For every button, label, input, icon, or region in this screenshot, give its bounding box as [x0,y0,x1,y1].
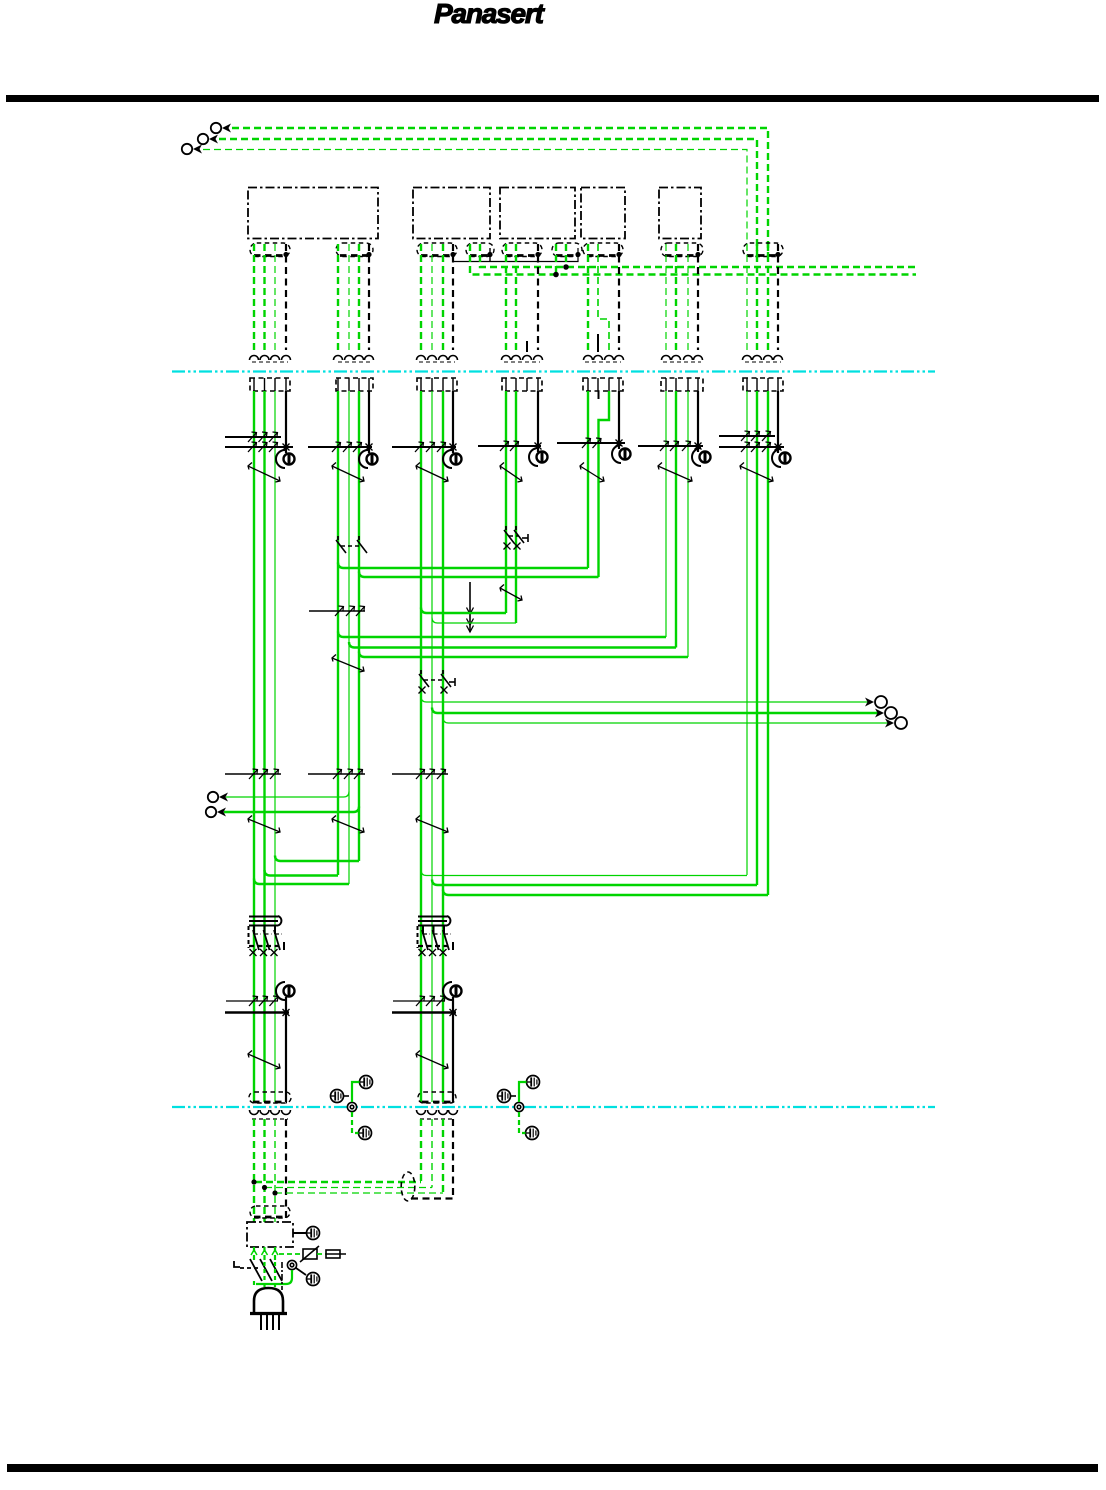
wire out y723 [443,718,891,724]
bond wire lower [519,1112,526,1133]
link y1187 [265,1187,432,1189]
socket S7 [743,378,783,391]
switch row lower [225,996,290,1016]
connector CN2 [336,243,373,257]
stub CN7 socket pin [598,391,600,399]
socket S3 [417,378,457,391]
wire out y797 [226,792,349,798]
ground PE b [498,1090,517,1103]
isolator blade [658,463,692,483]
screen wire lower 1 [285,1012,287,1102]
switch row SB2 [308,769,365,779]
connector CN13 [250,1206,290,1218]
harness W1 lower [254,1119,286,1222]
plug pins lower [250,1110,291,1119]
unit box U2 [413,188,490,239]
isolator blade [332,463,364,483]
plug pins P5 [584,356,624,363]
unit box U4 [581,188,625,239]
bottom rule [7,1464,1098,1472]
line filter FL1 [247,1222,293,1247]
harness W1 [254,244,286,350]
harness W9 run [747,391,768,895]
bond wire main [256,1270,292,1284]
connector CN4 [466,243,494,257]
screen wire lower 2 [452,1012,454,1102]
isolator blade [416,463,448,483]
harness W3 lower [421,1119,453,1199]
interlock SW5 [504,526,529,550]
link y1182 [255,1181,421,1183]
plug leads [254,1262,282,1290]
switch row SB3 [392,769,448,779]
unit box U3 [500,188,575,239]
circuit breaker CB2 [418,916,454,956]
terminal Y2 [875,707,897,719]
merge y885 [432,880,757,886]
harness W7 [588,244,619,350]
bond lead [296,1268,306,1275]
terminal Z2 [206,807,226,817]
switch bus MC7 [557,438,625,448]
merge y884 [254,879,349,885]
switch bus MC1 [225,432,293,452]
plug pins P4 [502,356,543,363]
main switch hook [234,1261,258,1268]
isolator blade [580,463,604,483]
switch row SB1 [225,769,281,779]
junction dot A [563,264,569,270]
screen wire [368,391,370,453]
bond point [514,1102,523,1111]
merge y861 [275,856,359,862]
connector CN11 [418,1092,456,1103]
phantom line 2 (panel boundary) [172,1106,935,1108]
stub CN5 spare pin [526,341,528,352]
connector CN6 [552,243,582,257]
connector CN3 [417,243,457,257]
socket S5 [583,378,623,391]
motor M [612,445,631,463]
plug pins P2 [334,356,374,363]
switch bus MC8 [638,441,703,451]
screen wire [697,391,699,452]
actuator bus (x470) [467,582,474,632]
motor M [359,450,378,468]
isolator blade W2b [332,655,364,673]
screen wire [777,391,779,453]
bond point main [287,1260,296,1269]
harness W5 [506,244,538,350]
terminal Y1 [865,696,887,708]
junction dot C [251,1179,256,1184]
motor M lower [443,982,462,1012]
terminal X1 (top left) [211,123,231,133]
isolator blade row3 [248,1051,280,1070]
wire out y713 [432,708,881,714]
ground PE main [307,1273,320,1286]
ground PE filter [293,1227,320,1240]
unit box U5 [659,188,701,239]
wire link y637 [338,632,666,638]
harness W2 [338,244,369,350]
connector CN12 (vertical) [401,1172,415,1201]
junction dot B [553,272,559,278]
filter leads [254,1247,275,1262]
plug pins P6 [662,356,703,363]
harness W8 run [666,391,688,657]
ground PE c [526,1127,539,1140]
harness W9 [747,244,778,350]
terminal X3 (top left) [182,144,202,154]
harness W8 [666,244,698,350]
svg-text:Panasert: Panasert [434,0,546,29]
connector CN7 [583,243,623,257]
motor M [772,449,791,467]
socket S2 [336,378,373,391]
isolator blade [248,463,280,483]
screen wire [452,391,454,453]
net link (CN3-CN6 black) [453,248,578,262]
bus green L2 (y274) [470,244,916,275]
wire out y702 [421,697,871,703]
motor M [276,450,295,468]
unit box U1 [248,188,378,239]
wire CN7 jog [598,244,609,350]
actuator bus (y611) [309,606,365,616]
harness W3 run [421,391,443,1102]
fuse F1 [326,1250,346,1258]
terminal Y3 [885,717,907,729]
phase arrows [251,1250,278,1255]
main switch blades [250,1259,282,1281]
wire top feed 1 [232,128,768,256]
ground PE a [360,1076,373,1089]
Panasert logo [434,0,546,29]
socket S4 [502,378,542,391]
switch bus MC3 [392,442,457,452]
wire top feed 2 [219,139,757,256]
socket S6 [661,378,703,391]
motor M lower [276,982,295,1012]
wire top feed 3 [203,150,747,257]
screen wire [618,391,620,449]
wire link y657 [359,652,688,658]
wire CN7 run jog [599,391,610,577]
screen wire [285,391,287,453]
wire link y623 [432,618,516,624]
ground PE c [359,1127,372,1140]
harness W7 run [587,391,589,568]
interlock SW3 [419,670,456,694]
plug pins P3 [417,356,458,363]
switch bus MC9 [719,431,784,452]
motor M [443,450,462,468]
motor M [692,448,711,466]
plug pins P7 [743,356,783,363]
phantom line 1 (panel boundary) [172,370,935,372]
harness W5 run [506,391,516,623]
merge y875R [421,870,747,876]
junction dot E [272,1190,277,1195]
merge y895 [443,890,768,896]
wire link y577 [359,572,599,578]
plug pins P1 [250,356,291,363]
motor M [529,448,548,466]
top rule [6,95,1099,102]
mains plug PL1 [250,1288,287,1330]
harness W2 run [338,391,359,884]
screen wire [537,391,539,452]
ground PE b [331,1090,350,1103]
connector CN10 [249,1092,291,1103]
bond wire upper [519,1082,527,1102]
isolator blade W5b [500,585,522,602]
connector CN9 [743,243,783,257]
connector CN8 [661,243,703,257]
socket S1 [250,378,290,391]
interlock SW2 [336,536,367,553]
isolator blade row3 [416,1051,448,1070]
wire to surge [279,1253,303,1255]
wire link y647 [349,642,676,648]
wire out y812 [224,807,359,813]
circuit breaker CB1 [249,916,285,956]
terminal X2 (top left) [198,134,218,144]
stub CN7 spare pin [597,334,599,352]
stub CN6 pin b [555,244,557,275]
harness W1 run [254,391,275,1102]
bond point [347,1102,356,1111]
isolator blade row2 [248,816,280,834]
isolator blade [500,463,522,483]
link y1193 [275,1192,443,1194]
connector CN5 [502,243,542,257]
switch bus MC2 [308,442,373,452]
isolator blade [740,463,773,483]
link y1198 (screen) [411,1197,453,1199]
harness W3 [421,244,453,350]
connector CN1 [250,243,290,257]
isolator blade row2 [416,816,448,834]
merge y875L [265,870,339,876]
terminal Z1 [208,792,228,802]
net stub CN4 black [489,248,491,262]
varistor RV1 [300,1246,319,1262]
ground PE a [527,1076,540,1089]
junction dot D [262,1185,267,1190]
plug pins lower [417,1110,458,1119]
stub CN6 pin a [565,244,567,267]
bond wire lower [352,1112,359,1133]
bus green L1 (y267) [480,244,919,267]
wire link y613 [421,608,506,614]
bond wire upper [352,1082,360,1102]
switch row lower [392,996,457,1016]
switch bus MC5 [478,441,542,451]
isolator blade row2 [332,816,364,834]
wire surge-fuse [317,1253,326,1255]
wire link y568 [338,563,588,569]
